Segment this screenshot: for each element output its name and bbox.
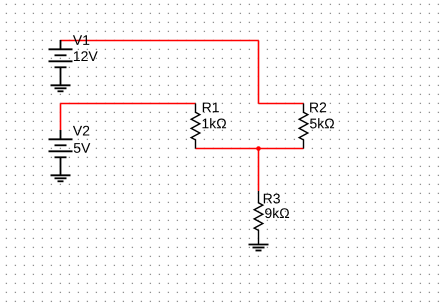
- wire vertical drop to R2 branch: [258, 41, 260, 104]
- label V2: [73, 126, 89, 136]
- battery V1: [49, 40, 73, 85]
- wire to R2 top: [259, 103, 304, 105]
- ground below R3: [249, 245, 269, 251]
- value 5kΩ: [310, 118, 334, 128]
- value 12V: [74, 51, 98, 61]
- label R1: [203, 103, 219, 113]
- ground below V2: [51, 175, 71, 181]
- battery V2: [49, 130, 73, 175]
- ground below V1: [51, 85, 71, 91]
- value 1kΩ: [203, 118, 227, 128]
- label V1: [73, 35, 89, 45]
- wire vertical into V2: [60, 104, 62, 131]
- node junction dot: [256, 146, 261, 151]
- resistor R1: [191, 104, 200, 149]
- label R3: [264, 194, 280, 204]
- wire V2 positive to R1 top: [61, 103, 196, 105]
- value 9kΩ: [265, 208, 289, 218]
- value 5V: [74, 143, 91, 153]
- wire top rail from V1 positive terminal: [61, 40, 259, 42]
- label R2: [310, 102, 326, 112]
- wire junction down to R3 top: [258, 149, 260, 192]
- resistor R2: [299, 104, 308, 149]
- resistor R3: [254, 191, 263, 245]
- wire middle node R1 bottom to R2 bottom: [196, 148, 304, 150]
